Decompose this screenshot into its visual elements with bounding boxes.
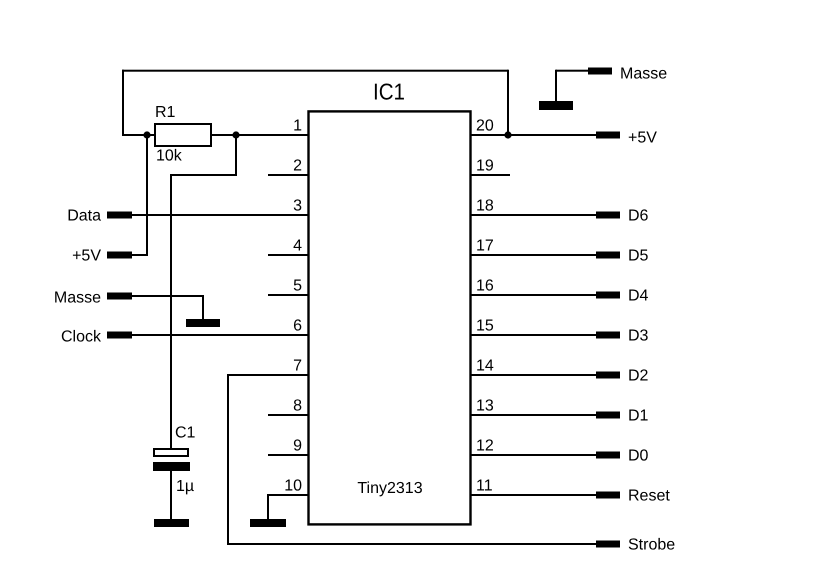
node Clock connector pad [107, 332, 132, 339]
pin 19 [470, 158, 510, 177]
svg-text:12: 12 [476, 438, 494, 455]
wire Masse left vertical [202, 295, 204, 319]
op-amp U1 IC body Tiny2313 [309, 111, 471, 524]
pin 4 [268, 238, 309, 257]
svg-text:6: 6 [293, 318, 302, 335]
pin 17 [470, 238, 596, 257]
svg-text:4: 4 [293, 238, 302, 255]
capacitor C1 [153, 449, 190, 471]
wire top horizontal from pin1 net to pin20 net [122, 70, 508, 72]
node D0 connector pad [596, 452, 620, 459]
svg-text:19: 19 [476, 158, 494, 175]
wire vertical from left junction down to +5V [146, 135, 148, 256]
node D4 connector pad [596, 292, 620, 299]
svg-text:13: 13 [476, 398, 494, 415]
svg-text:D0: D0 [628, 448, 649, 465]
svg-text:Reset: Reset [628, 488, 670, 505]
pin 18 [470, 198, 596, 217]
svg-text:Strobe: Strobe [628, 537, 675, 554]
wire Clock to pin 6 [132, 334, 309, 336]
pin 2 [268, 158, 309, 177]
svg-text:8: 8 [293, 398, 302, 415]
wire vertical top right [507, 70, 509, 135]
svg-text:11: 11 [476, 478, 493, 495]
svg-text:D4: D4 [628, 288, 649, 305]
svg-text:R1: R1 [155, 104, 176, 121]
pin 11 [470, 478, 596, 497]
svg-text:Masse: Masse [54, 290, 101, 307]
svg-text:14: 14 [476, 358, 494, 375]
wire pin 10 vertical to ground [267, 494, 269, 519]
wire Data to pin 3 [132, 214, 309, 216]
node junction right of R1 [232, 131, 239, 138]
svg-text:IC1: IC1 [373, 79, 405, 105]
node D2 connector pad [596, 372, 620, 379]
svg-text:3: 3 [293, 198, 302, 215]
svg-text:7: 7 [293, 358, 302, 375]
svg-text:D1: D1 [628, 408, 649, 425]
wire jog horizontal to C1 column [170, 174, 237, 176]
wire from C1 to ground [170, 471, 172, 519]
pin 16 [470, 278, 596, 297]
node junction pin20 [504, 131, 511, 138]
svg-text:5: 5 [293, 278, 302, 295]
pin 7 [227, 358, 309, 377]
svg-text:Tiny2313: Tiny2313 [357, 480, 422, 497]
svg-text:20: 20 [476, 118, 494, 135]
wire pin1 row horizontal [122, 134, 309, 136]
node +5V right connector pad [596, 132, 620, 139]
node D5 connector pad [596, 252, 620, 259]
pin 13 [470, 398, 596, 417]
pin 12 [470, 438, 596, 457]
svg-text:C1: C1 [175, 425, 196, 442]
svg-text:Data: Data [67, 208, 101, 225]
pin 8 [268, 398, 309, 417]
pin 20 [470, 118, 596, 137]
svg-text:15: 15 [476, 318, 494, 335]
wire Masse left horizontal [132, 295, 204, 297]
svg-text:D6: D6 [628, 208, 649, 225]
svg-text:+5V: +5V [72, 248, 101, 265]
node Masse left connector pad [107, 293, 132, 300]
svg-text:10: 10 [284, 478, 302, 495]
svg-text:10k: 10k [156, 148, 183, 165]
node D6 connector pad [596, 212, 620, 219]
node Strobe connector pad [596, 541, 620, 548]
svg-text:Masse: Masse [620, 66, 667, 83]
node Masse top right connector pad [588, 68, 612, 75]
svg-text:9: 9 [293, 438, 302, 455]
svg-text:Clock: Clock [61, 329, 102, 346]
wire pin 7 vertical down [227, 374, 229, 545]
ground below C1 [154, 519, 189, 527]
svg-text:1: 1 [293, 118, 302, 135]
pin 14 [470, 358, 596, 377]
wire left vertical top [122, 70, 124, 136]
resistor R1 [155, 124, 211, 146]
node D1 connector pad [596, 412, 620, 419]
ground pin 10 [250, 519, 286, 527]
wire vertical down to C1 [170, 174, 172, 448]
wire vertical from right junction down [235, 135, 237, 176]
svg-text:16: 16 [476, 278, 494, 295]
svg-text:18: 18 [476, 198, 494, 215]
node Reset connector pad [596, 492, 620, 499]
wire Masse top right vertical [555, 70, 557, 102]
svg-text:D5: D5 [628, 248, 649, 265]
pin 15 [470, 318, 596, 337]
ground left Masse [186, 319, 220, 327]
node Data connector pad [107, 212, 132, 219]
svg-text:2: 2 [293, 158, 302, 175]
svg-text:17: 17 [476, 238, 494, 255]
wire Strobe bottom horizontal [227, 543, 596, 545]
wire Masse top right horizontal [556, 70, 588, 72]
wire +5V left stub [132, 254, 148, 256]
pin 5 [268, 278, 309, 297]
node junction left of R1 [143, 131, 150, 138]
node +5V left connector pad [107, 252, 132, 259]
svg-text:1µ: 1µ [176, 478, 194, 495]
pin 10 [268, 478, 309, 497]
svg-text:+5V: +5V [628, 130, 657, 147]
ground top right [539, 101, 573, 110]
node D3 connector pad [596, 332, 620, 339]
svg-text:D3: D3 [628, 328, 649, 345]
svg-text:D2: D2 [628, 368, 649, 385]
pin 9 [268, 438, 309, 457]
